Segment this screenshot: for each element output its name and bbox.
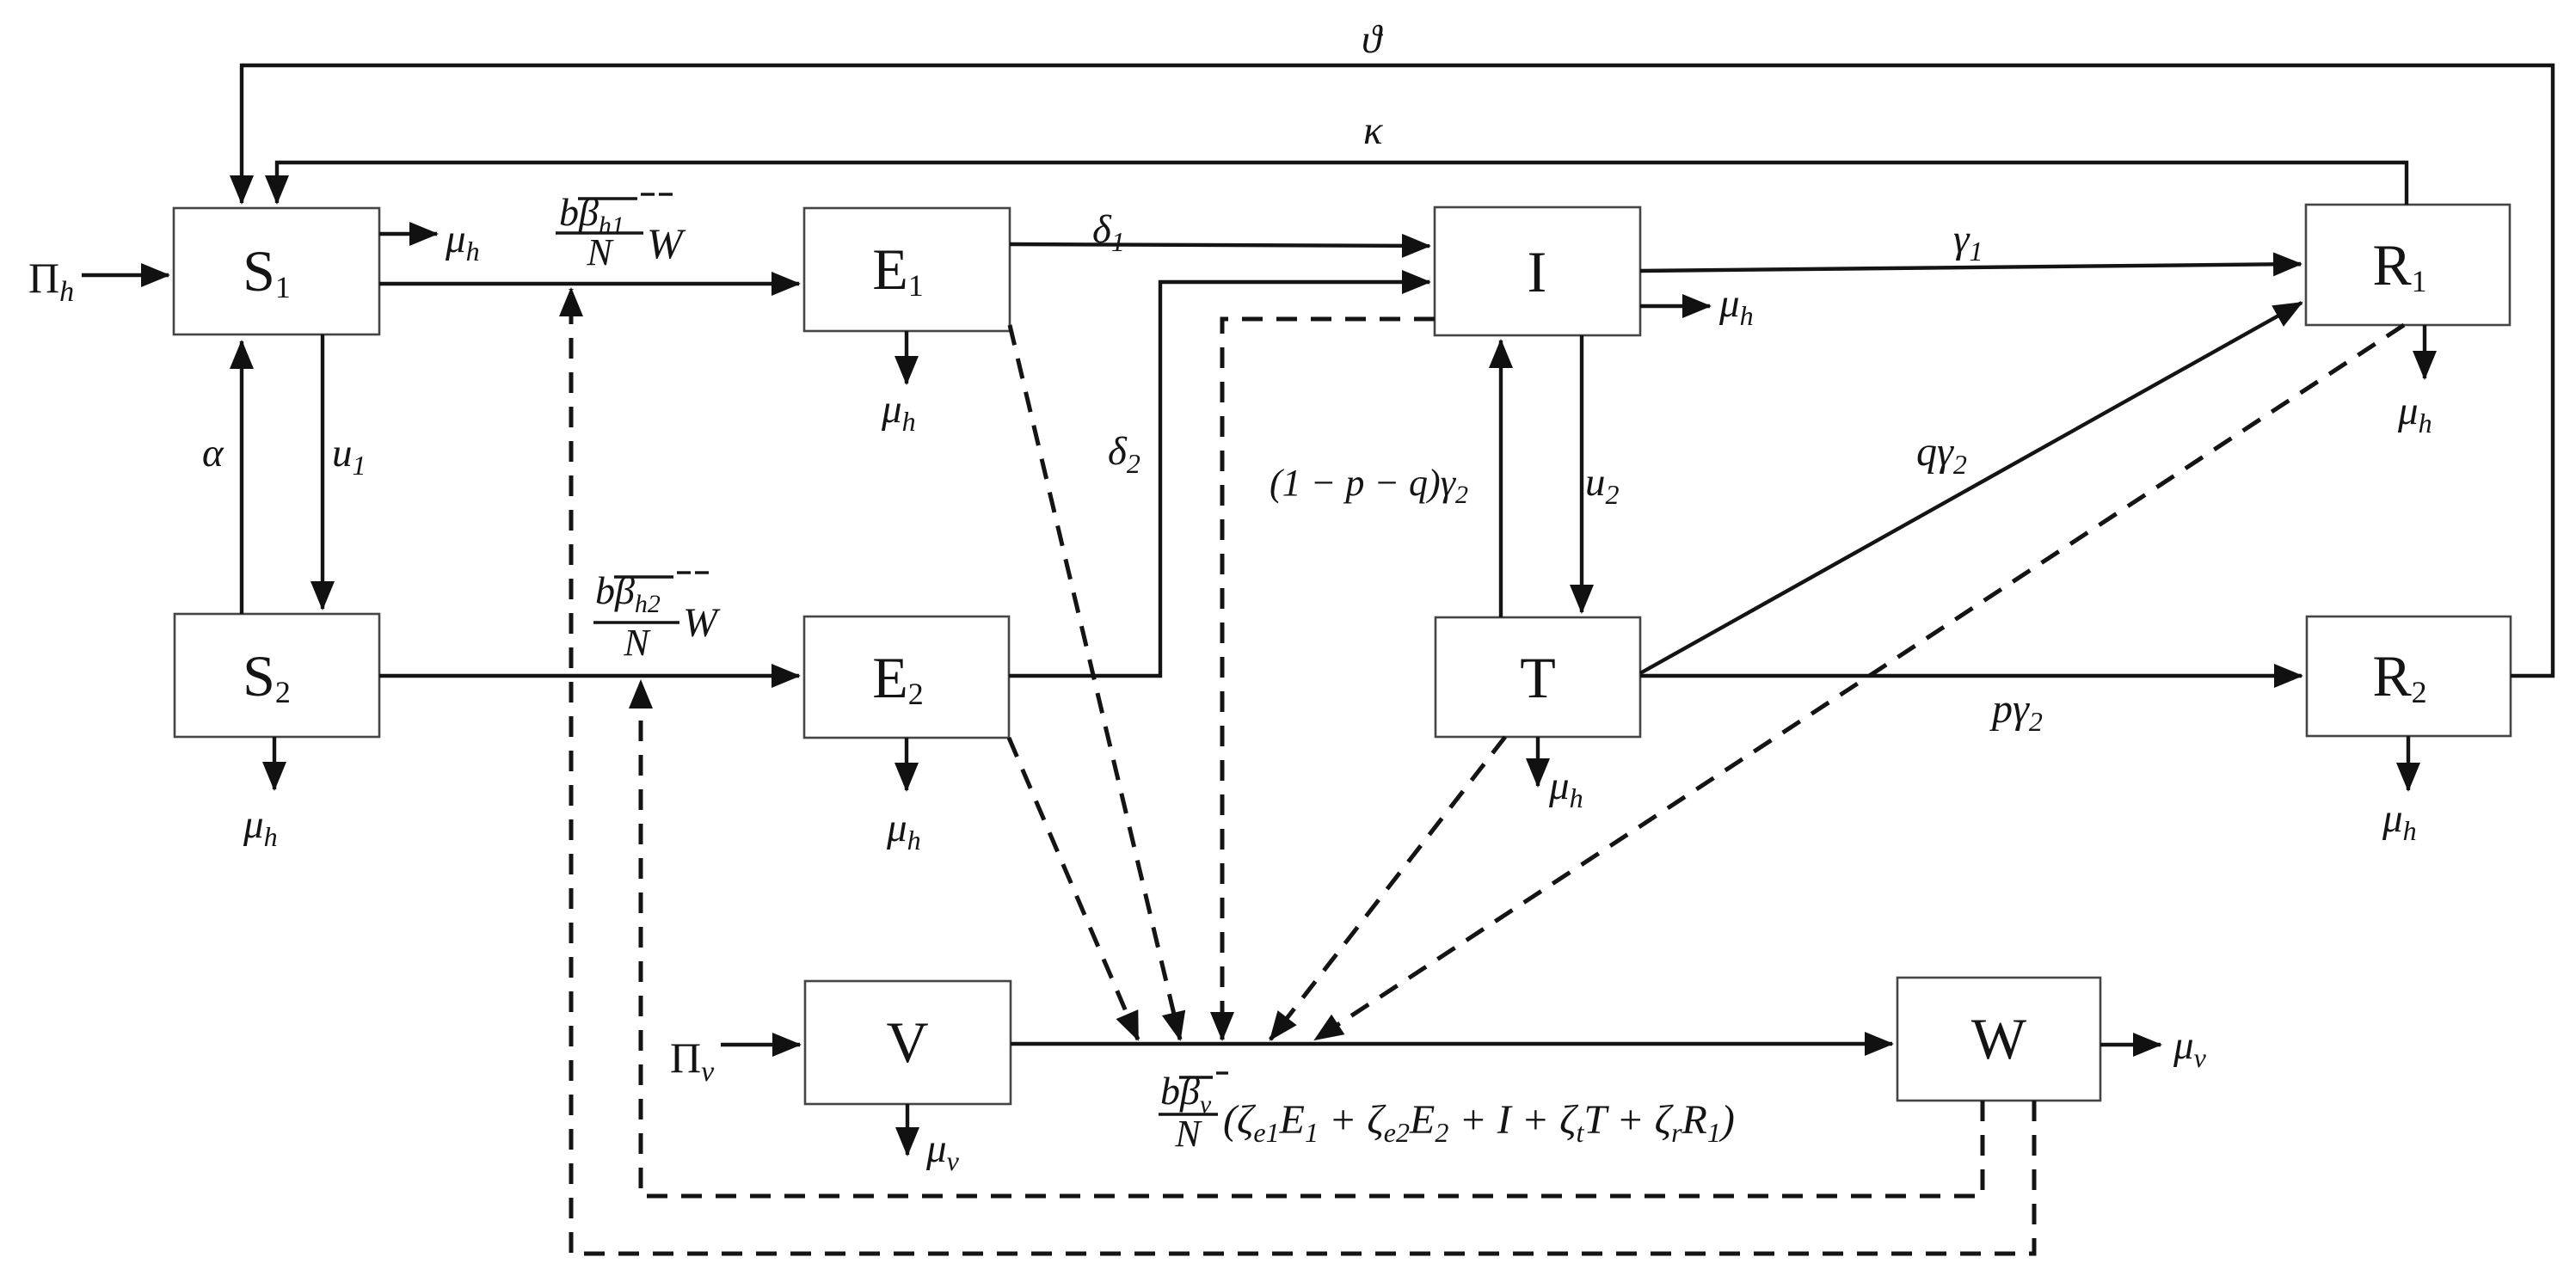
arrow T to R2 (p gamma2) [1640, 674, 2302, 678]
wire kappa loop R1 top up over to S1 top [277, 163, 2407, 205]
svg-text:N: N [1174, 1113, 1202, 1155]
arrow T down to mu_h [1536, 737, 1540, 786]
dashed I left down to V-W junction [1222, 319, 1435, 1040]
wire vartheta loop R2 right up over to S1 top [242, 65, 2553, 676]
dashed W feedback to S1-E1 wire [571, 289, 2034, 1254]
svg-text:κ: κ [1363, 108, 1384, 153]
arrow I to mu_h [1640, 304, 1710, 308]
dashed E1 to V-W junction [1010, 325, 1180, 1040]
arrow T to R1 (q gamma2) [1640, 303, 2302, 673]
arrow Pi_h into S1 [82, 273, 169, 277]
arrow E2 down to mu_h [905, 738, 908, 790]
arrow I to T (u2) [1580, 335, 1583, 612]
arrow R2 down to mu_h [2407, 736, 2410, 790]
svg-text:W: W [683, 600, 721, 646]
arrow alpha S2 to S1 [240, 341, 243, 614]
svg-text:N: N [623, 622, 651, 664]
arrow W to mu_v [2100, 1043, 2161, 1046]
dashed E2 to V-W junction [1009, 738, 1138, 1040]
dashed T to V-W junction [1270, 737, 1505, 1040]
svg-text:N: N [586, 231, 614, 273]
arrow V down to mu_v [906, 1104, 909, 1155]
box R2 [2307, 616, 2511, 736]
label fraction b bbeta_h1 / N W [556, 190, 686, 273]
box R1 [2306, 205, 2510, 325]
box S1 [174, 208, 379, 334]
box T [1436, 617, 1640, 737]
arrow Pi_v into V [721, 1043, 800, 1046]
svg-text:T: T [1520, 645, 1556, 710]
arrow E1 to I (delta1) [1010, 244, 1429, 246]
svg-text:W: W [1971, 1006, 2027, 1071]
wire V to W (b bbeta_v/N force of infection) [1011, 1042, 1892, 1046]
arrow S2 down to mu_h [273, 737, 276, 789]
wire E2 right up to I (delta2) [1009, 282, 1429, 676]
arrow R1 down to mu_h [2423, 325, 2426, 378]
arrow T to I ((1-p-q)gamma2) [1499, 340, 1503, 617]
wire S1 to E1 (b bbeta_h1/N W) [379, 282, 799, 285]
svg-text:α: α [202, 431, 224, 475]
svg-text:V: V [886, 1009, 928, 1075]
arrow S1 to mu_h [379, 232, 437, 236]
box S2 [175, 614, 379, 737]
label fraction b bbeta_v / N [1159, 1069, 1228, 1155]
box V [805, 981, 1011, 1104]
svg-text:(ζe1E1 + ζe2E2 + I + ζtT + ζrR: (ζe1E1 + ζe2E2 + I + ζtT + ζrR1) [1223, 1097, 1735, 1148]
box E2 [804, 616, 1009, 738]
label fraction b bbeta_h2 / N W [593, 568, 721, 664]
svg-text:W: W [647, 219, 686, 267]
box I [1435, 207, 1640, 335]
svg-text:ϑ: ϑ [1362, 17, 1384, 62]
wire S2 to E2 (b bbeta_h2/N W) [379, 674, 799, 678]
arrow I to R1 (gamma1) [1640, 264, 2301, 271]
svg-text:(1 − p − q)γ2: (1 − p − q)γ2 [1270, 462, 1468, 509]
arrow u1 S1 to S2 [321, 334, 324, 609]
svg-text:I: I [1528, 239, 1547, 304]
arrow E1 down to mu_h [905, 331, 908, 383]
box E1 [804, 208, 1010, 331]
dashed R1 to V-W junction [1315, 325, 2404, 1040]
box W [1897, 978, 2100, 1101]
dashed W feedback to S2-E2 wire [641, 681, 1983, 1196]
